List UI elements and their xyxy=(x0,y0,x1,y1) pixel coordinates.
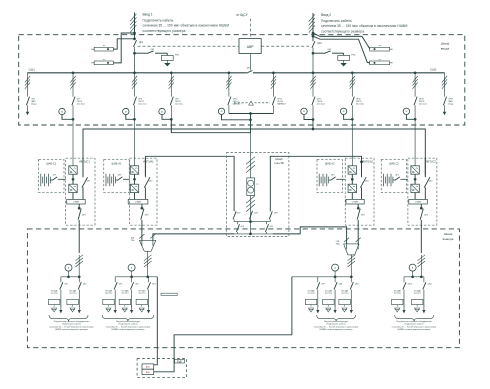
device ВЦ2 xyxy=(142,369,154,374)
svg-text:сечением 25 ... 70 мм² обжатым: сечением 25 ... 70 мм² обжатым в наконеч… xyxy=(106,325,150,328)
svg-text:БАЙПАС Т: БАЙПАС Т xyxy=(277,102,287,105)
wire to QF5/РН2 xyxy=(313,52,324,54)
svg-text:Шкаф: Шкаф xyxy=(275,157,283,161)
svg-text:ws: ws xyxy=(379,45,381,47)
svg-text:НШВИ соответствующего размера: НШВИ соответствующего размера xyxy=(112,329,146,331)
wire fuses to Ввод1 drop xyxy=(113,33,134,63)
svg-text:Шкаф: Шкаф xyxy=(441,42,450,46)
svg-text:тран 3Ф: тран 3Ф xyxy=(274,161,284,165)
breaker QF16 branch to ИБП1/С2 xyxy=(413,73,428,166)
svg-text:НШВИ соответствующего размера: НШВИ соответствующего размера xyxy=(398,329,432,331)
svg-text:QF1: QF1 xyxy=(254,213,258,215)
contactor КМ4 xyxy=(218,108,252,121)
svg-text:QF2: QF2 xyxy=(429,180,433,182)
svg-text:ЕсЕ: ЕсЕ xyxy=(177,360,182,363)
node secondary junction xyxy=(249,220,252,223)
connector ЩК ТБ6 (А1 output) xyxy=(131,234,156,255)
bar symbol PE xyxy=(161,293,177,295)
svg-text:QF3: QF3 xyxy=(424,214,428,216)
svg-text:QF2: QF2 xyxy=(237,213,241,215)
svg-text:Потребители силового оборудова: Потребители силового оборудования xyxy=(396,321,432,323)
svg-text:QF1: QF1 xyxy=(53,175,57,177)
label Шкаф вывода xyxy=(443,232,454,241)
note text Ввод 1 xyxy=(143,12,230,32)
contactor КМ6 xyxy=(340,108,353,121)
svg-text:ИБП1/А1: ИБП1/А1 xyxy=(143,160,154,164)
svg-text:пуск (авт.): пуск (авт.) xyxy=(138,293,146,295)
output group 1 (С1): QF1 QF2 xyxy=(49,255,94,331)
svg-text:пуск (авт.): пуск (авт.) xyxy=(325,293,333,295)
breaker QF2 (Ввод 2) xyxy=(312,41,322,73)
svg-text:вват (бл.): вват (бл.) xyxy=(138,103,146,105)
switch QF4 (тран) xyxy=(236,222,243,234)
svg-text:Подключить кабель: Подключить кабель xyxy=(119,324,138,326)
wire dashed from ЩСУ to АВР xyxy=(250,19,252,39)
node Ввод 1 cable entry (hatched) xyxy=(130,13,136,41)
wire tран output to А2 funnel xyxy=(273,227,347,244)
contactor КМ5 xyxy=(301,108,315,121)
svg-text:Шкаф: Шкаф xyxy=(444,232,453,236)
output group 3 (А2): QF7 QF8 QF9 xyxy=(292,255,359,331)
svg-text:ШАБ-С1: ШАБ-С1 xyxy=(46,162,57,166)
battery cabinet ШАБ А2 xyxy=(317,160,345,193)
svg-text:QF7: QF7 xyxy=(321,283,325,285)
box ЕсЕ (bottom, dashed) xyxy=(137,359,186,378)
svg-text:пуск (авт.): пуск (авт.) xyxy=(414,293,422,295)
svg-text:QF9: QF9 xyxy=(355,283,359,285)
feeder QF17 ЩАП (right, with arrow) xyxy=(442,73,454,116)
ground below РН1 xyxy=(164,60,170,66)
breaker QF8 branch to ИБП1/А1 xyxy=(132,73,147,166)
control unit АВР xyxy=(239,39,261,54)
wire АВР to tie breaker xyxy=(250,54,252,71)
svg-text:QF2: QF2 xyxy=(135,283,139,285)
svg-text:вват (бл.): вват (бл.) xyxy=(356,103,364,105)
bus tie breaker QF3 xyxy=(246,68,444,74)
ground below РН2 xyxy=(340,60,346,66)
battery cabinet ШАБ С2 xyxy=(381,160,408,193)
svg-text:вват (бл.): вват (бл.) xyxy=(317,103,325,105)
relay РН1 xyxy=(161,53,179,60)
contactor КМ7 xyxy=(403,108,416,121)
switch QF5 (тран) xyxy=(265,222,273,234)
mechanical interlock with triangle xyxy=(234,101,270,105)
svg-text:сечением 25 ... 70 мм² обжатым: сечением 25 ... 70 мм² обжатым в наконеч… xyxy=(314,325,358,328)
label СШ2 xyxy=(430,68,437,72)
svg-text:QF2: QF2 xyxy=(317,43,322,45)
svg-text:Ввод 1: Ввод 1 xyxy=(143,12,153,16)
svg-text:пуск (авт.): пуск (авт.) xyxy=(69,293,77,295)
svg-text:QF1: QF1 xyxy=(331,175,335,177)
svg-text:QF5: QF5 xyxy=(269,226,273,228)
svg-text:ИБП1/С2: ИБП1/С2 xyxy=(425,160,436,164)
breaker QF16 branch to ИБП1/А2 xyxy=(350,73,365,166)
node fuse tap dots Ввод1 xyxy=(133,32,136,41)
svg-text:пуск (авт.): пуск (авт.) xyxy=(341,293,349,295)
wire transformer secondary xyxy=(246,196,255,222)
breaker QF1 (Ввод 1) xyxy=(133,40,143,73)
svg-text:QF1: QF1 xyxy=(119,283,123,285)
UPS ИБП1/С2 xyxy=(408,158,437,253)
contactor КМ1 xyxy=(59,108,75,120)
svg-text:QF2: QF2 xyxy=(86,180,90,182)
cabinet Шкаф тран (dashed box) xyxy=(226,153,289,237)
svg-text:сечением 35 ... 150 мм² обжаты: сечением 35 ... 150 мм² обжатым в наконе… xyxy=(321,24,408,28)
svg-text:пуск (авт.): пуск (авт.) xyxy=(105,293,113,295)
breaker QF15 branch (Ввод2 down) xyxy=(310,73,325,129)
svg-text:НШВИ соответствующего размера: НШВИ соответствующего размера xyxy=(55,329,89,331)
svg-text:QF1: QF1 xyxy=(65,283,69,285)
contactor КМ3 xyxy=(159,108,173,120)
wire group3 to ЕсЕ box xyxy=(154,277,292,372)
svg-text:Потребители аппаратуры: Потребители аппаратуры xyxy=(324,321,349,323)
wire bypass line A (to С1/С2 bypass) xyxy=(83,120,425,176)
battery cabinet ШАБ-А1 xyxy=(104,160,130,193)
wire line B (СЕТЬ1 байпас to transformer) xyxy=(171,119,250,132)
battery cabinet ШАБ-С1 xyxy=(39,160,66,193)
switch QF1 (tран out mid) xyxy=(249,211,252,220)
svg-text:QF10: QF10 xyxy=(408,283,413,285)
svg-text:СШ2: СШ2 xyxy=(430,68,437,72)
svg-text:QF3: QF3 xyxy=(145,214,149,216)
fuse FU3 (Ввод 2) xyxy=(370,45,393,51)
svg-text:ws: ws xyxy=(379,59,381,61)
node QF1 lower junction xyxy=(133,52,136,55)
node fuse tap dots Ввод2 xyxy=(312,32,315,38)
svg-text:ШАБ С2: ШАБ С2 xyxy=(389,162,399,166)
wire bypass feed to ИБП1/А1 xyxy=(145,156,234,211)
node QF2 lower junction xyxy=(312,52,315,55)
output group 2 (А1): QF1 QF2 QF3 xyxy=(102,255,157,331)
svg-text:от ЩСУ: от ЩСУ xyxy=(236,13,248,17)
svg-text:пуск (авт.): пуск (авт.) xyxy=(394,293,402,295)
svg-text:QF2: QF2 xyxy=(83,283,87,285)
svg-text:сечением 25 ... 70 мм² обжатым: сечением 25 ... 70 мм² обжатым в наконеч… xyxy=(49,325,93,328)
svg-text:ввода: ввода xyxy=(441,47,450,51)
node Ввод 2 cable entry (hatched) xyxy=(309,13,315,41)
fuse FU4 (Ввод 2) xyxy=(370,59,393,65)
svg-text:QF1: QF1 xyxy=(395,175,399,177)
svg-text:вват (бл.): вват (бл.) xyxy=(175,103,183,105)
svg-text:АВР: АВР xyxy=(247,45,255,49)
feeder QF5 ЩАП (left, with arrow) xyxy=(25,73,37,116)
svg-text:Потребители силового оборудова: Потребители силового оборудования xyxy=(54,321,90,323)
label Шкаф ввода xyxy=(441,42,450,51)
svg-text:ТБА: ТБА xyxy=(336,243,340,246)
UPS ИБП1/А1 xyxy=(128,158,157,240)
wire row2 xyxy=(234,222,273,236)
svg-text:QF3: QF3 xyxy=(361,214,365,216)
fuse FU2 (Ввод 1) xyxy=(91,59,113,65)
svg-text:QF3: QF3 xyxy=(274,213,278,215)
svg-text:пуск (авт.): пуск (авт.) xyxy=(51,293,59,295)
svg-text:соответствующего размера: соответствующего размера xyxy=(321,29,364,33)
label ЕсЕ xyxy=(175,359,185,363)
switch QF4 xyxy=(147,49,168,53)
wire feed into transformer xyxy=(246,133,255,178)
output group 4 (С2): QF10 QF11 xyxy=(392,255,437,331)
svg-text:вват (бл.): вват (бл.) xyxy=(77,103,85,105)
svg-text:QF2: QF2 xyxy=(149,180,153,182)
svg-text:QF1: QF1 xyxy=(139,42,144,44)
breaker QF7 branch to ИБП1/С1 xyxy=(70,73,85,166)
contactor КМ2 xyxy=(123,108,136,120)
UPS ИБП1/А2 xyxy=(345,158,374,244)
wire group2 to ЕсЕ box xyxy=(154,277,157,365)
svg-text:QF8: QF8 xyxy=(339,283,343,285)
wire interlock output xyxy=(229,112,274,133)
svg-text:Подключить кабель: Подключить кабель xyxy=(405,324,424,326)
wire row1 xyxy=(234,221,270,223)
label от ЩСУ xyxy=(236,13,248,17)
svg-text:QF2: QF2 xyxy=(365,180,369,182)
label Шкаф тран xyxy=(274,157,284,165)
fuse FU1 (Ввод 1) xyxy=(91,45,113,51)
svg-text:пуск (авт.): пуск (авт.) xyxy=(121,293,129,295)
switch QF5 xyxy=(324,49,344,53)
svg-text:вывода: вывода xyxy=(443,237,454,241)
svg-text:соответствующего размера: соответствующего размера xyxy=(143,29,186,33)
svg-text:Потребители аппаратуры: Потребители аппаратуры xyxy=(116,321,141,323)
switch QF2 (тран out left) xyxy=(233,211,240,221)
svg-text:ШАБ-А1: ШАБ-А1 xyxy=(112,162,122,166)
svg-text:QF1: QF1 xyxy=(118,175,122,177)
note text Ввод 2 xyxy=(321,13,408,33)
svg-text:вват (бл.): вват (бл.) xyxy=(419,103,427,105)
wire fuses to Ввод2 drop xyxy=(313,33,370,63)
cabinet box 'Шкаф ввода' (input cabinet, dashed outline) xyxy=(19,35,465,125)
svg-text:пуск (авт.): пуск (авт.) xyxy=(308,293,316,295)
svg-text:Подключить кабель: Подключить кабель xyxy=(321,19,352,23)
label QF1 тран xyxy=(254,213,258,215)
svg-text:QF3: QF3 xyxy=(82,214,86,216)
svg-text:ws: ws xyxy=(103,45,105,47)
relay РН2 xyxy=(338,53,356,60)
svg-text:ИБП1/А2: ИБП1/А2 xyxy=(362,160,373,164)
cabinet box 'Шкаф вывода' (output cabinet, dashed outline) xyxy=(27,229,459,348)
transformer Т1 xyxy=(247,178,260,196)
bus СШ1 xyxy=(27,68,246,73)
wire dashed АВР to QF2 xyxy=(261,45,309,47)
svg-text:СШ1: СШ1 xyxy=(29,68,36,72)
svg-text:QF4: QF4 xyxy=(240,226,244,228)
svg-text:ИБП1/С1: ИБП1/С1 xyxy=(79,160,90,164)
breaker QF13 (interlocked pair left) xyxy=(226,73,242,114)
svg-text:QF3: QF3 xyxy=(152,283,156,285)
svg-text:QF11: QF11 xyxy=(428,283,432,285)
bus junction dots xyxy=(72,71,417,74)
svg-text:НШВИ соответствующего размера: НШВИ соответствующего размера xyxy=(320,329,354,331)
connector ОЩ ТБА (А2 output) xyxy=(336,238,361,259)
breaker QF9 branch (СЕТЬ1 байпас) xyxy=(169,73,184,133)
svg-text:ws: ws xyxy=(103,59,105,61)
svg-text:Ввод 2: Ввод 2 xyxy=(321,13,331,17)
svg-text:ШАБ А2: ШАБ А2 xyxy=(325,162,335,166)
breaker QF14 (interlocked pair right) xyxy=(271,73,287,114)
wire bypass feed to ИБП1/А2 xyxy=(270,156,363,211)
svg-text:Подключить кабель: Подключить кабель xyxy=(62,324,81,326)
svg-text:сечением 25 ... 70 мм² обжатым: сечением 25 ... 70 мм² обжатым в наконеч… xyxy=(392,325,436,328)
wire to QF4/РН1 xyxy=(135,52,147,54)
switch QF3 (тран out right) xyxy=(269,211,277,221)
wire dashed АВР to QF1 xyxy=(138,45,240,47)
wire tран output to А1 funnel xyxy=(153,234,234,240)
UPS ИБП1/С1 xyxy=(66,158,95,253)
svg-text:сечением 35 ... 150 мм² обжаты: сечением 35 ... 150 мм² обжатым в наконе… xyxy=(143,24,230,28)
svg-text:Подключить кабель: Подключить кабель xyxy=(143,18,174,22)
device ВЦ1 xyxy=(142,364,154,369)
svg-text:Подключить кабель: Подключить кабель xyxy=(327,324,346,326)
